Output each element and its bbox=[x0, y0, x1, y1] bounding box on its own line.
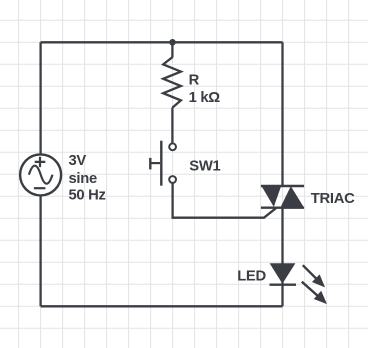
svg-text:50 Hz: 50 Hz bbox=[69, 187, 106, 203]
svg-text:SW1: SW1 bbox=[189, 159, 220, 175]
svg-text:sine: sine bbox=[69, 171, 97, 187]
svg-text:R: R bbox=[189, 73, 200, 89]
svg-text:TRIAC: TRIAC bbox=[311, 191, 355, 207]
svg-text:3V: 3V bbox=[69, 153, 87, 169]
svg-text:LED: LED bbox=[237, 269, 266, 285]
svg-text:1 kΩ: 1 kΩ bbox=[189, 90, 221, 106]
